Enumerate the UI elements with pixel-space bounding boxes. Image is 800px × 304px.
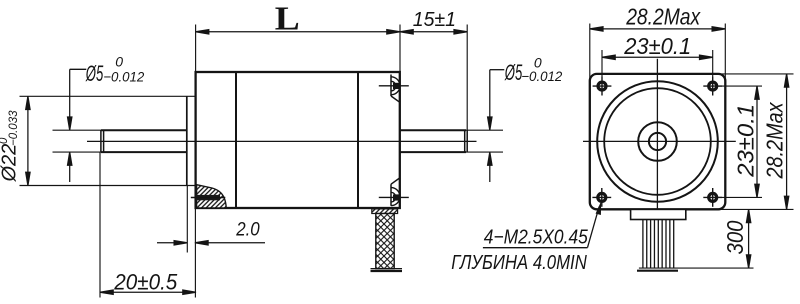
svg-text:2.0: 2.0 — [235, 220, 260, 241]
svg-text:4−M2.5X0.45: 4−M2.5X0.45 — [484, 226, 589, 248]
svg-text:Ø22: Ø22 — [0, 144, 21, 183]
svg-text:−0.012: −0.012 — [103, 68, 144, 84]
svg-text:23±0.1: 23±0.1 — [733, 104, 759, 178]
svg-text:28.2Max: 28.2Max — [625, 4, 701, 30]
svg-text:L: L — [275, 1, 300, 38]
svg-text:20±0.5: 20±0.5 — [113, 269, 178, 294]
svg-text:28.2Max: 28.2Max — [762, 101, 788, 179]
svg-text:Ø5: Ø5 — [85, 61, 104, 86]
svg-text:0: 0 — [115, 54, 123, 70]
svg-text:ГЛУБИНА 4.0MIN: ГЛУБИНА 4.0MIN — [451, 252, 587, 274]
svg-text:23±0.1: 23±0.1 — [623, 33, 691, 59]
svg-text:−0.012: −0.012 — [521, 68, 562, 84]
svg-text:15±1: 15±1 — [413, 9, 456, 31]
svg-text:Ø5: Ø5 — [504, 60, 523, 85]
svg-text:−0.033: −0.033 — [8, 110, 20, 146]
svg-text:300: 300 — [722, 220, 748, 254]
